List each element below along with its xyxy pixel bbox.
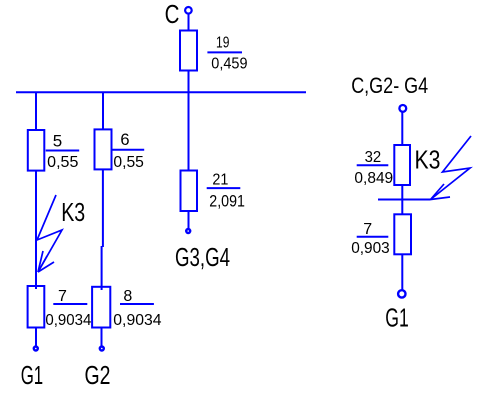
svg-text:21: 21: [212, 172, 228, 189]
svg-text:C: C: [165, 1, 180, 29]
svg-text:32: 32: [365, 149, 382, 166]
svg-text:G1: G1: [385, 304, 409, 332]
svg-text:2,091: 2,091: [209, 191, 245, 210]
svg-text:8: 8: [123, 288, 132, 305]
svg-text:7: 7: [58, 288, 67, 305]
svg-text:19: 19: [216, 35, 229, 52]
svg-text:K3: K3: [61, 199, 85, 227]
svg-text:0,903: 0,903: [351, 240, 390, 257]
svg-text:7: 7: [363, 221, 372, 238]
svg-text:C,G2- G4: C,G2- G4: [351, 73, 428, 98]
svg-text:0,55: 0,55: [47, 154, 78, 171]
svg-text:K3: K3: [415, 146, 441, 174]
svg-text:G3,G4: G3,G4: [175, 244, 230, 272]
svg-text:0,9034: 0,9034: [45, 312, 91, 329]
svg-text:0,9034: 0,9034: [113, 312, 161, 329]
svg-text:0,849: 0,849: [354, 170, 393, 187]
svg-text:5: 5: [53, 132, 62, 151]
svg-text:0,55: 0,55: [113, 154, 144, 171]
svg-text:0,459: 0,459: [211, 56, 247, 73]
svg-text:6: 6: [120, 131, 129, 149]
svg-text:G1: G1: [21, 362, 44, 390]
svg-text:G2: G2: [85, 362, 111, 390]
